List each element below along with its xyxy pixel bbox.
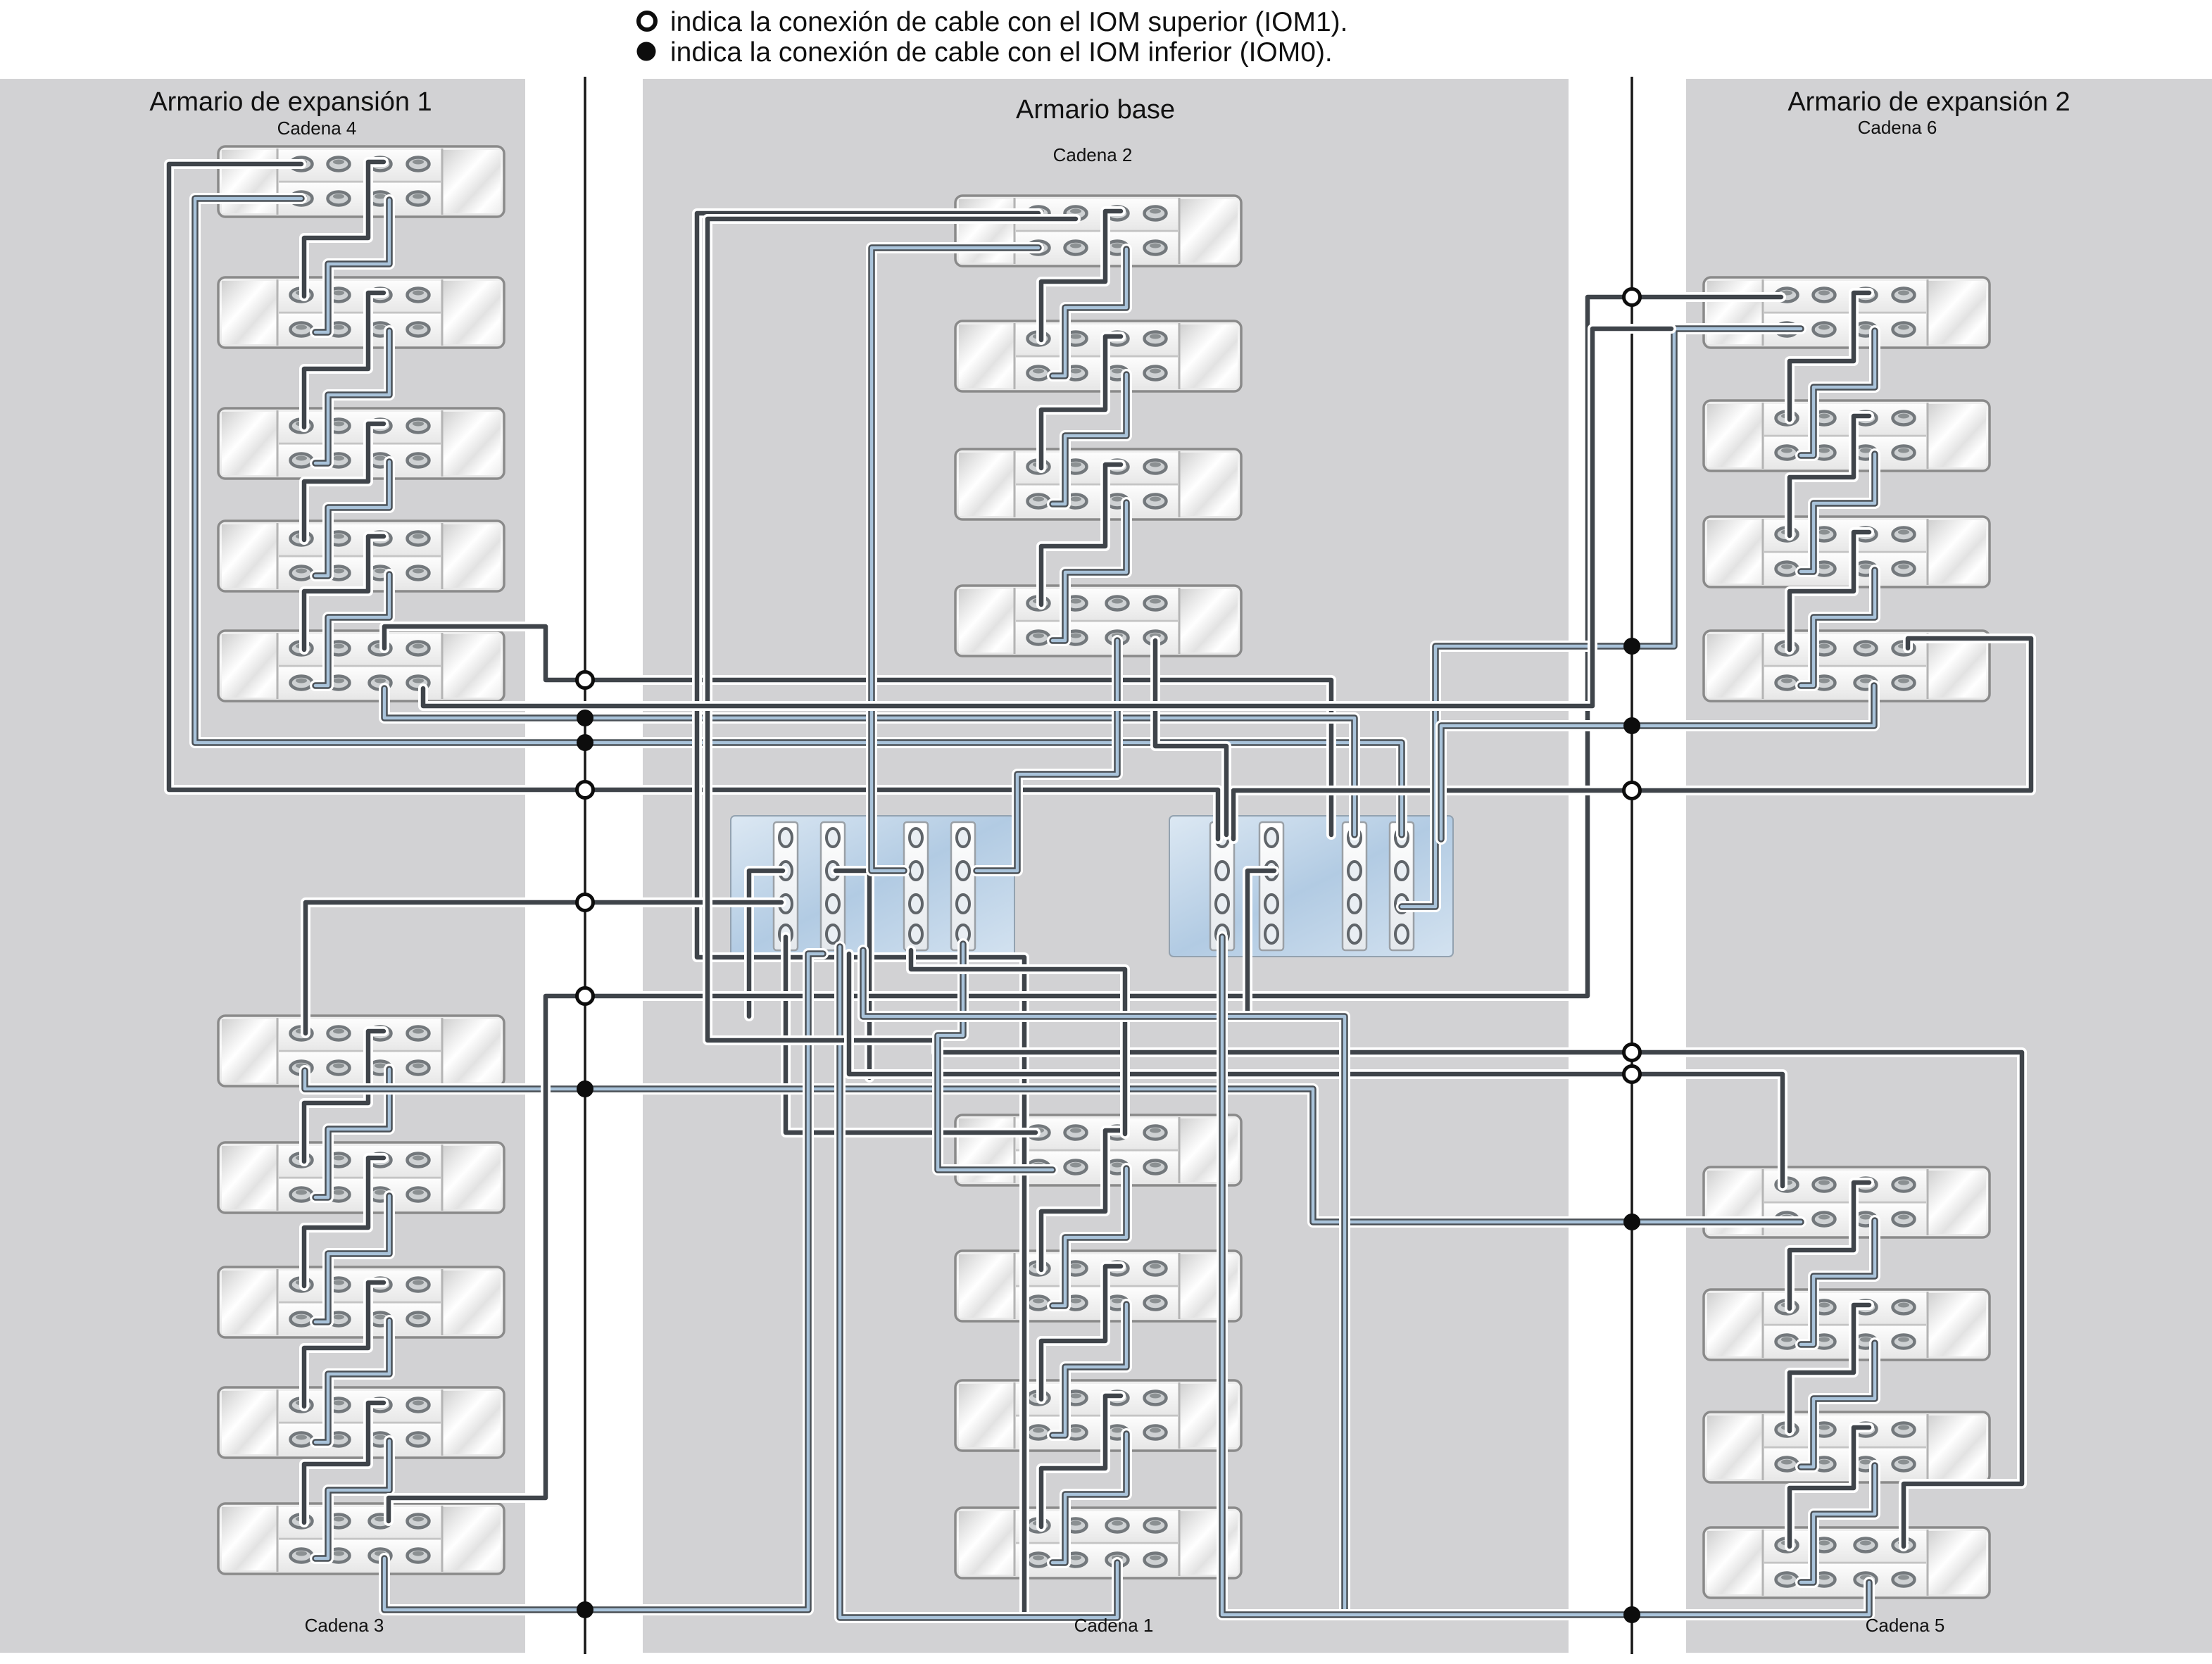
svg-text:Cadena 2: Cadena 2 [1053,144,1133,165]
svg-text:Cadena 6: Cadena 6 [1858,117,1937,138]
svg-text:Cadena 3: Cadena 3 [305,1615,384,1636]
svg-text:Cadena 5: Cadena 5 [1866,1615,1945,1636]
svg-text:Armario base: Armario base [1016,95,1175,125]
svg-text:Armario de expansión 1: Armario de expansión 1 [149,87,432,117]
svg-text:Armario de expansión 2: Armario de expansión 2 [1787,87,2070,117]
svg-text:Cadena 1: Cadena 1 [1074,1615,1154,1636]
svg-text:indica la conexión de cable co: indica la conexión de cable con el IOM s… [670,7,1347,37]
svg-text:Cadena 4: Cadena 4 [277,118,357,139]
svg-text:indica la conexión de cable co: indica la conexión de cable con el IOM i… [670,37,1333,68]
